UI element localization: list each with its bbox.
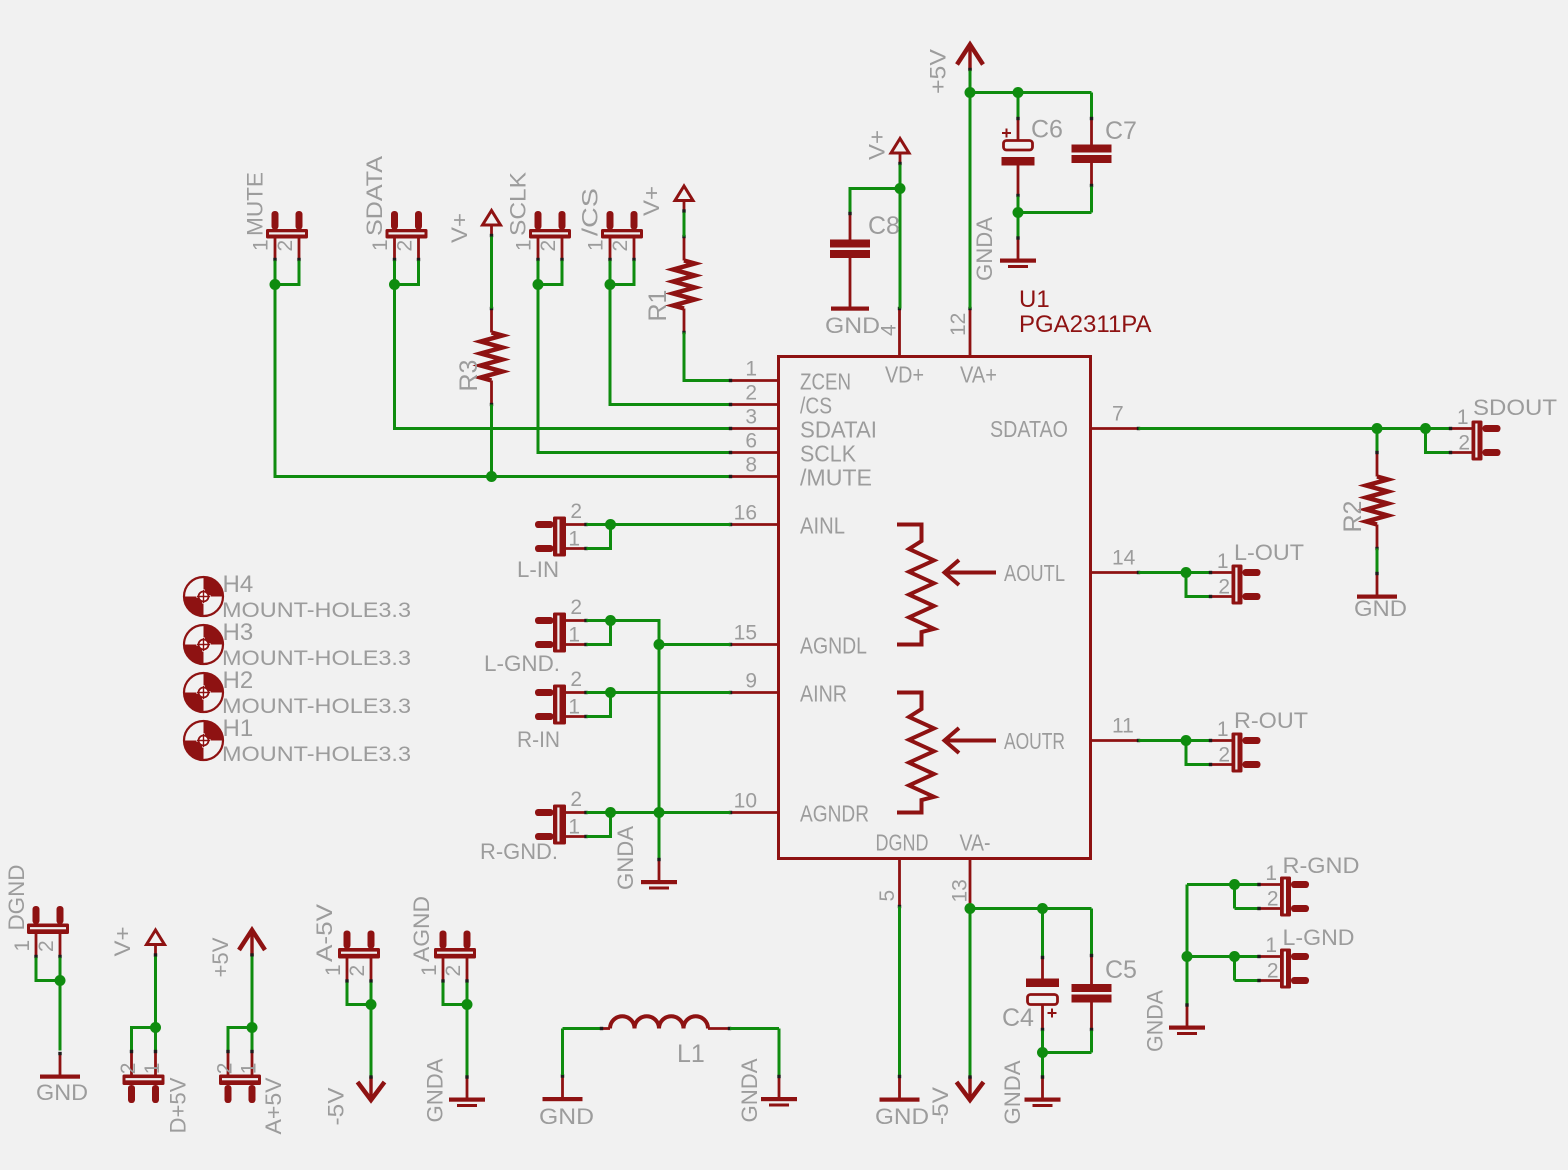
U1 pin 12 VA+ (top) (969, 309, 972, 357)
wire GNDA bus vertical (658, 645, 661, 859)
wire to pin 15 AGNDL (659, 643, 731, 646)
ground GNDA (under C6) (1017, 237, 1020, 259)
svg-text:8: 8 (745, 454, 757, 477)
junction MUTE pins (270, 279, 281, 290)
wire R-IN pin2 to pin 9 AINR (587, 691, 731, 694)
junction R-OUT pins (1181, 735, 1192, 746)
junction SDOUT pins (1420, 423, 1431, 434)
svg-text:2: 2 (346, 965, 369, 977)
U1 internal potentiometer (right channel) (897, 693, 934, 813)
svg-text:1: 1 (141, 1063, 164, 1075)
U1 pin 9 AINR (left) (731, 691, 779, 694)
svg-text:2: 2 (274, 240, 297, 252)
svg-text:SCLK: SCLK (800, 441, 857, 467)
wire R-GND pin2 to pin 10 AGNDR (587, 811, 731, 814)
connector L-GND (pinhead 1x2, pins right) (1291, 953, 1309, 960)
connector L-IN (pinhead 1x2, pins left) (535, 521, 554, 528)
connector SDATA (pinhead 1x2, pins up) (391, 211, 398, 230)
wire +5V stem (969, 71, 972, 93)
svg-text:SDATAI: SDATAI (800, 417, 877, 443)
svg-text:R1: R1 (644, 290, 672, 322)
svg-text:1: 1 (238, 1063, 261, 1075)
connector /CS (pinhead 1x2, pins up) (607, 211, 614, 230)
svg-text:DGND: DGND (4, 865, 29, 931)
svg-text:SCLK: SCLK (506, 172, 531, 236)
wire R-GND pin join (1233, 885, 1236, 909)
svg-text:15: 15 (734, 622, 757, 645)
wire +5V rail to C6/C7 (970, 91, 1092, 94)
connector R-IN (pinhead 1x2, pins left) (535, 689, 554, 696)
svg-text:VA-: VA- (960, 830, 991, 856)
svg-text:6: 6 (745, 430, 757, 453)
junction C6 tap (1013, 87, 1024, 98)
svg-text:H2: H2 (223, 667, 254, 694)
wire A+5V pin2 join (228, 1028, 252, 1051)
ground GNDA (under C4) (1041, 1076, 1044, 1098)
wire pin 7 SDATAO to SDOUT (1139, 427, 1450, 430)
ground GNDA (AGND connector) (466, 1076, 469, 1098)
wire L-GND pin1 (1235, 955, 1259, 958)
U1 internal potentiometer (left channel) (897, 525, 934, 645)
wire DGND pin1 join (36, 958, 60, 981)
mount hole H4 (204, 577, 224, 597)
svg-text:GNDA: GNDA (1143, 990, 1168, 1052)
svg-text:2: 2 (35, 940, 58, 952)
wire D+5V pin2 join (132, 1028, 156, 1051)
svg-text:GND: GND (539, 1104, 594, 1129)
junction L-OUT pins (1181, 567, 1192, 578)
wire R-GND pin2 (1235, 907, 1259, 910)
svg-text:9: 9 (745, 670, 757, 693)
svg-text:GND: GND (36, 1080, 88, 1105)
power symbol V+ (above C8) (891, 139, 909, 154)
svg-text:A+5V: A+5V (261, 1077, 286, 1134)
svg-text:1: 1 (585, 239, 608, 251)
svg-text:13: 13 (949, 879, 972, 902)
wire R-GND to bus (1187, 883, 1235, 886)
wire C4 bottom to GNDA (1041, 1031, 1044, 1077)
wire C7 bottom tie (1018, 211, 1092, 214)
svg-text:2: 2 (537, 240, 560, 252)
svg-text:10: 10 (734, 790, 757, 813)
svg-text:+5V: +5V (208, 937, 233, 977)
wire AGND to GNDA (466, 1005, 469, 1077)
svg-text:AGND: AGND (409, 896, 434, 962)
svg-text:SDOUT: SDOUT (1473, 395, 1557, 420)
wire SCLK pin1 drop (537, 261, 540, 285)
junction L-GND pins (1229, 951, 1240, 962)
wire C5 bottom drop (1090, 1031, 1093, 1053)
svg-text:2: 2 (1218, 744, 1230, 767)
junction L-IN pins (605, 519, 616, 530)
svg-text:-5V: -5V (928, 1087, 953, 1125)
svg-text:GND: GND (825, 313, 880, 338)
ground GND (under R2) (1376, 573, 1379, 595)
junction R2 tap (1372, 423, 1383, 434)
U1 pin 2 /CS (left) (731, 403, 779, 406)
wire AGND pin1 join (443, 983, 467, 1005)
svg-text:7: 7 (1112, 403, 1124, 426)
ground GNDA (L1 right) (778, 1076, 781, 1098)
svg-text:2: 2 (570, 788, 582, 811)
junction D+5V pins (150, 1022, 161, 1033)
U1 pin 10 AGNDR (left) (731, 811, 779, 814)
svg-text:L-GND.: L-GND. (484, 651, 560, 676)
junction V+ rail at C8 (895, 183, 906, 194)
svg-text:V+: V+ (865, 130, 890, 160)
junction R-IN pins (605, 687, 616, 698)
U1 pin 16 AINL (left) (731, 523, 779, 526)
junction GNDA bus at pin 10 (654, 807, 665, 818)
wire A-5V pin2 drop (370, 983, 373, 1005)
ground GNDA (output bus) (1186, 1004, 1189, 1026)
svg-text:14: 14 (1112, 547, 1136, 570)
wire C5 ground tie (1043, 1051, 1092, 1054)
svg-text:2: 2 (570, 500, 582, 523)
svg-text:2: 2 (1458, 432, 1470, 455)
svg-text:V+: V+ (639, 186, 664, 216)
svg-text:2: 2 (570, 596, 582, 619)
wire DGND pin2 drop (59, 958, 62, 981)
wire V+ to R1 (683, 213, 686, 237)
svg-text:1: 1 (568, 816, 580, 839)
wire /CS pin2 join (610, 261, 634, 285)
power symbol V+ (above R3) (483, 211, 501, 226)
svg-text:R2: R2 (1339, 501, 1367, 533)
wire L1 to GNDA (778, 1029, 781, 1077)
svg-text:AINL: AINL (800, 513, 845, 539)
svg-text:C6: C6 (1031, 116, 1063, 144)
wire C7 bottom drop (1090, 187, 1093, 213)
junction SCLK pins (533, 279, 544, 290)
C6 plus sign (1002, 129, 1011, 138)
power symbol V+ (D+5V) (147, 930, 165, 945)
wire L-GND to bus (1187, 955, 1235, 958)
svg-text:2: 2 (214, 1063, 237, 1075)
U1 pin 13 VA- (bottom) (969, 859, 972, 909)
capacitor C6 (polarized) (1017, 118, 1020, 141)
svg-text:GNDA: GNDA (737, 1058, 762, 1122)
svg-text:+5V: +5V (926, 49, 951, 94)
junction C4/C5 ground tie (1037, 1047, 1048, 1058)
svg-text:L1: L1 (677, 1040, 705, 1068)
U1 pin 8 /MUTE (left) (731, 475, 779, 478)
U1 pin 6 SCLK (left) (731, 451, 779, 454)
wire L-OUT pin2 join (1186, 573, 1210, 597)
wire L-IN pin1 join (587, 525, 611, 549)
capacitor C4 (polarized) (1041, 909, 1044, 957)
wire L-GND pin2 to bus (587, 621, 660, 645)
junction +5V rail at VA+ (965, 87, 976, 98)
svg-text:R-OUT: R-OUT (1234, 708, 1308, 733)
svg-text:/CS: /CS (800, 393, 832, 419)
power symbol -5V (A-5V) (358, 1082, 385, 1100)
svg-text:H4: H4 (223, 571, 254, 598)
svg-text:AOUTL: AOUTL (1004, 560, 1065, 586)
mount hole H1 (204, 721, 224, 741)
ground GND (DGND connector) (59, 1053, 62, 1075)
wire VA- rail to C4/C5 (970, 907, 1092, 910)
junction AGND pins (462, 999, 473, 1010)
connector MUTE (pinhead 1x2, pins up) (272, 211, 279, 230)
wire SDATA pin1 drop (393, 261, 396, 285)
inductor L1 (601, 1027, 610, 1030)
svg-text:VD+: VD+ (885, 362, 924, 388)
junction DGND pins (55, 975, 66, 986)
wire MUTE pin1 drop (274, 261, 277, 285)
svg-text:2: 2 (1267, 960, 1279, 983)
power symbol V+ (above R1) (675, 186, 693, 201)
svg-text:C5: C5 (1105, 956, 1137, 984)
wire R3 to /MUTE net (490, 405, 493, 477)
svg-text:AINR: AINR (800, 681, 847, 707)
svg-text:R-GND: R-GND (1283, 853, 1360, 878)
junction VA- net (965, 903, 976, 914)
wire L1 right lead (730, 1027, 779, 1030)
svg-text:L-OUT: L-OUT (1234, 540, 1304, 565)
svg-text:GNDA: GNDA (1000, 1060, 1025, 1124)
svg-text:AOUTR: AOUTR (1004, 728, 1065, 754)
wire L1 left lead (563, 1027, 602, 1030)
svg-text:GNDA: GNDA (423, 1058, 448, 1122)
svg-text:PGA2311PA: PGA2311PA (1019, 311, 1152, 338)
svg-text:1: 1 (322, 964, 345, 976)
svg-text:2: 2 (570, 668, 582, 691)
wire R-OUT pin2 join (1186, 741, 1210, 765)
svg-text:1: 1 (513, 239, 536, 251)
svg-text:L-GND: L-GND (1283, 925, 1355, 950)
resistor R1 (683, 237, 686, 261)
svg-text:2: 2 (1267, 888, 1279, 911)
wire +5V to A+5V pin1 (251, 957, 254, 1051)
svg-text:1: 1 (1265, 934, 1277, 957)
svg-text:1: 1 (418, 964, 441, 976)
svg-text:11: 11 (1112, 715, 1134, 738)
svg-text:GNDA: GNDA (613, 826, 638, 890)
U1 wiper arrow AOUTR (945, 728, 997, 753)
connector A+5V (pinhead 1x2, pins down) (249, 1085, 256, 1103)
wire L-GND pin join (1233, 957, 1236, 981)
svg-text:1: 1 (568, 696, 580, 719)
svg-text:1: 1 (568, 624, 580, 647)
wire AGND pin2 drop (466, 983, 469, 1005)
wire SDATA pin2 join (395, 261, 419, 285)
junction R-GND pins (1229, 879, 1240, 890)
svg-text:V+: V+ (110, 927, 135, 957)
wire R-GND pin1 (1235, 883, 1259, 886)
svg-text:AGNDR: AGNDR (800, 801, 869, 827)
svg-text:4: 4 (878, 324, 901, 336)
svg-text:1: 1 (250, 239, 273, 251)
svg-text:GND: GND (875, 1104, 929, 1129)
svg-text:1: 1 (568, 528, 580, 551)
wire V+ to D+5V pin1 (154, 957, 157, 1051)
wire to R2 (1376, 429, 1379, 453)
wire A-5V pin1 join (347, 983, 371, 1005)
wire C7 top (1090, 93, 1093, 118)
svg-text:2: 2 (442, 965, 465, 977)
ground GNDA (input bus) (658, 859, 661, 881)
svg-text:VA+: VA+ (960, 362, 997, 388)
connector SCLK (pinhead 1x2, pins up) (535, 211, 542, 230)
svg-text:5: 5 (876, 890, 899, 902)
svg-text:MUTE: MUTE (243, 172, 268, 236)
svg-text:2: 2 (394, 240, 417, 252)
resistor R2 (1376, 453, 1379, 477)
U1 wiper arrow AOUTL (945, 560, 997, 585)
svg-text:2: 2 (745, 382, 757, 405)
junction R-GND pins (605, 807, 616, 818)
U1 pin 1 ZCEN (left) (731, 379, 779, 382)
svg-text:R3: R3 (455, 360, 483, 392)
U1 pin 4 VD+ (top) (898, 309, 901, 357)
C4 plus sign (1048, 1009, 1057, 1018)
wire MUTE pin2 join (275, 261, 299, 285)
svg-text:C7: C7 (1105, 117, 1137, 145)
mount hole H2 (204, 673, 224, 693)
power symbol -5V (pin 13) (957, 1082, 984, 1100)
resistor R3 (490, 309, 493, 333)
svg-text:2: 2 (1218, 576, 1230, 599)
wire VA- down to -5V (969, 909, 972, 1077)
wire pin 11 AOUTR to R-OUT (1139, 739, 1210, 742)
svg-text:-5V: -5V (324, 1087, 349, 1125)
U1 pin5 wire DGND to GND (898, 907, 901, 1077)
wire V+ rail to C8 (850, 189, 900, 213)
svg-text:U1: U1 (1019, 286, 1050, 313)
power symbol +5V (top) (957, 45, 983, 65)
svg-text:SDATAO: SDATAO (990, 416, 1068, 442)
svg-text:GND: GND (1354, 596, 1407, 621)
junction C4 tap (1037, 903, 1048, 914)
wire pin 14 AOUTL to L-OUT (1139, 571, 1210, 574)
svg-text:DGND: DGND (876, 830, 929, 856)
connector SDOUT (pinhead 1x2, pins right) (1483, 425, 1501, 432)
wire R1 to pin 1 ZCEN (684, 333, 731, 381)
svg-text:1: 1 (1265, 862, 1277, 885)
U1 pin 15 AGNDL (left) (731, 643, 779, 646)
U1 pin 7 SDATAO (right) (1091, 427, 1139, 430)
svg-text:1: 1 (11, 940, 34, 952)
wire /CS pin1 drop (609, 261, 612, 285)
wire V+ down to pin 4 VD+ (899, 189, 902, 309)
svg-text:16: 16 (734, 502, 757, 525)
svg-text:MOUNT-HOLE3.3: MOUNT-HOLE3.3 (222, 743, 411, 766)
wire L-GND pin1 join (587, 621, 611, 645)
svg-text:1: 1 (1217, 718, 1229, 741)
ground GND (pin 5) (898, 1076, 901, 1098)
svg-text:GNDA: GNDA (972, 217, 997, 281)
svg-text:1: 1 (1217, 550, 1229, 573)
wire V+ to R3 (490, 237, 493, 309)
wire net /MUTE to pin 8 (275, 285, 731, 477)
wire R2 to GND (1376, 549, 1379, 573)
junction /CS pins (605, 279, 616, 290)
junction A+5V pins (247, 1022, 258, 1033)
svg-text:1: 1 (745, 358, 757, 381)
wire R-IN pin1 join (587, 693, 611, 717)
wire C6 top (1017, 93, 1020, 118)
wire V+ stem to rail (899, 165, 902, 189)
svg-text:V+: V+ (447, 213, 472, 243)
svg-text:AGNDL: AGNDL (800, 633, 867, 659)
connector R-GND (pinhead 1x2, pins right) (1291, 881, 1309, 888)
svg-text:A-5V: A-5V (312, 904, 337, 962)
wire L-GND pin2 (1235, 979, 1259, 982)
wire GND to L1 (561, 1029, 564, 1076)
wire SCLK pin2 join (538, 261, 562, 285)
capacitor C8 (849, 213, 852, 240)
junction R3 on /MUTE net (486, 471, 497, 482)
svg-text:C4: C4 (1002, 1004, 1034, 1032)
U1 pin 5 DGND (bottom) (898, 859, 901, 907)
wire SDOUT pin2 join (1426, 429, 1450, 453)
ground GND (L1 left) (561, 1075, 564, 1097)
svg-text:ZCEN: ZCEN (800, 369, 851, 395)
junction C6/C7 ground tie (1013, 207, 1024, 218)
svg-text:3: 3 (745, 406, 757, 429)
capacitor C7 (1090, 118, 1093, 145)
U1 pin 14 AOUTL (right) (1091, 571, 1139, 574)
svg-text:C8: C8 (868, 212, 900, 240)
junction SDATA pins (389, 279, 400, 290)
svg-text:/MUTE: /MUTE (800, 465, 872, 491)
connector AGND (pinhead 1x2, pins up) (440, 931, 447, 949)
svg-text:H1: H1 (223, 715, 254, 742)
svg-text:L-IN: L-IN (517, 557, 559, 582)
wire C6 bottom to GNDA (1017, 197, 1020, 237)
svg-text:R-IN: R-IN (517, 727, 560, 752)
svg-text:/CS: /CS (578, 188, 603, 236)
capacitor C5 (1090, 909, 1093, 955)
connector DGND (pinhead 1x2, pins up) (33, 906, 40, 924)
wire net SDATA to pin 3 (395, 285, 731, 429)
svg-text:1: 1 (1457, 406, 1469, 429)
wire R-GND pin1 join (587, 813, 611, 837)
junction GNDA bus at pin 15 (654, 639, 665, 650)
U1 pin 11 AOUTR (right) (1091, 739, 1139, 742)
svg-text:SDATA: SDATA (362, 156, 387, 236)
wire output ground bus (1186, 885, 1189, 1005)
svg-text:1: 1 (369, 239, 392, 251)
wire DGND to GND (59, 981, 62, 1051)
wire net SCLK to pin 6 (538, 285, 731, 453)
connector L-GND. (pinhead 1x2, pins left) (535, 617, 554, 624)
connector R-GND. (pinhead 1x2, pins left) (535, 809, 554, 816)
svg-text:D+5V: D+5V (166, 1077, 191, 1133)
op-amp/IC U1 PGA2311PA body (779, 357, 1091, 859)
svg-text:R-GND.: R-GND. (480, 839, 558, 864)
mount hole H3 (204, 625, 224, 645)
svg-text:2: 2 (609, 240, 632, 252)
wire +5V down to pin 12 VA+ (969, 93, 972, 309)
connector D+5V (pinhead 1x2, pins down) (152, 1085, 159, 1103)
connector A-5V (pinhead 1x2, pins up) (344, 931, 351, 949)
wire net /CS to pin 2 (610, 285, 731, 405)
wire A-5V to -5V arrow (370, 1005, 373, 1077)
junction L-GND pins (605, 615, 616, 626)
junction output ground bus (1182, 951, 1193, 962)
svg-text:12: 12 (947, 313, 970, 336)
connector L-OUT (pinhead 1x2, pins right) (1243, 569, 1261, 576)
svg-text:H3: H3 (223, 619, 254, 646)
junction A-5V pins (366, 999, 377, 1010)
ground GND (under C8) (831, 307, 869, 311)
wire L-IN pin2 to pin 16 AINL (587, 523, 731, 526)
svg-text:2: 2 (117, 1063, 140, 1075)
U1 pin 3 SDATAI (left) (731, 427, 779, 430)
power symbol +5V (A+5V) (239, 930, 265, 950)
